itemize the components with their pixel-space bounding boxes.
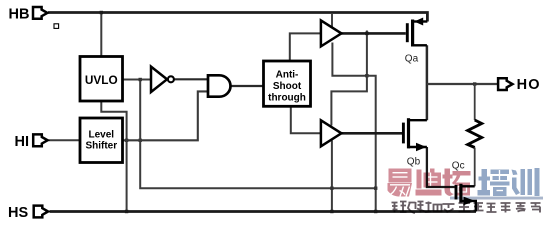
- wire inverter output to AND input: [174, 78, 208, 80]
- watermark logo row1 char tuo: [443, 169, 471, 197]
- node gate wire junction: [365, 32, 368, 35]
- pin HI: [33, 134, 47, 146]
- svg-text:HB: HB: [9, 7, 30, 23]
- Anti-Shoot through box: [264, 61, 311, 106]
- node UVLO-out junction: [139, 78, 142, 81]
- inverter U1: [151, 67, 167, 92]
- transistor Qb: [403, 118, 427, 148]
- wire HB top rail to Qa drain: [48, 13, 427, 22]
- svg-text:Qa: Qa: [405, 53, 419, 64]
- node bottom tap crossing F1: [330, 187, 333, 190]
- wire UVLO bottom jog down left side to HS rail: [101, 101, 126, 212]
- svg-text:UVLO: UVLO: [85, 73, 118, 87]
- pin HO: [498, 78, 512, 90]
- wire HI pin to Level Shifter: [49, 139, 81, 141]
- wire rail tap into top buffer top edge: [331, 14, 333, 28]
- svg-text:Level: Level: [89, 130, 115, 141]
- svg-text:Qb: Qb: [407, 156, 421, 167]
- resistor: [468, 120, 482, 148]
- node V_b crossing LS wire: [139, 139, 142, 142]
- UVLO box: [80, 57, 123, 102]
- buffer bottom: [321, 120, 342, 146]
- svg-text:Shoot: Shoot: [273, 81, 302, 92]
- node S2 junction: [365, 74, 368, 77]
- watermark logo row1 char di: [416, 169, 442, 196]
- wire top buffer bottom tap S3+S2: [332, 43, 367, 76]
- svg-text:Qc: Qc: [452, 161, 465, 172]
- svg-text:Anti-: Anti-: [276, 70, 299, 81]
- wire HS bottom rail: [50, 210, 477, 213]
- watermark logo row1 char xun (blue): [512, 168, 540, 196]
- wire Anti-Shoot bottom jog to bottom buffer input: [291, 106, 321, 133]
- watermark logo row1 char yi: [388, 168, 543, 200]
- wire Qb source down to Qc gate: [427, 147, 455, 187]
- wire HO node vertical Qa source to Qb drain: [426, 45, 429, 120]
- node resistor tap on HO wire: [473, 82, 476, 85]
- wire HO output: [427, 83, 498, 85]
- wire resistor bottom lead to Qc drain: [474, 148, 476, 187]
- watermark row2 gray slogan text: [392, 202, 541, 214]
- watermark logo row1 char pei (blue): [478, 169, 510, 196]
- node HS junctions: [125, 210, 128, 213]
- wire top buffer output to Qa gate: [341, 32, 406, 35]
- node F1 right end junction: [374, 187, 377, 190]
- wire bottom buffer bottom tap down to HS rail: [331, 141, 333, 212]
- watermark underline: [450, 197, 543, 200]
- wire Anti-Shoot top jog to top buffer input: [290, 33, 321, 61]
- svg-text:Shifter: Shifter: [85, 141, 117, 152]
- node rail-UVLO junction: [100, 11, 103, 14]
- node V_a crossing LS wire: [125, 139, 128, 142]
- wire UVLO output to inverter: [123, 79, 151, 81]
- svg-text:HS: HS: [8, 205, 28, 219]
- pin HS: [34, 206, 48, 218]
- wire V1 gate feedback down and left to bottom buffer top: [331, 31, 367, 126]
- svg-text:through: through: [268, 93, 306, 104]
- wire bottom buffer output to Qb gate: [341, 132, 403, 135]
- wire AND output to Anti-Shoot box: [230, 85, 263, 87]
- wire resistor top lead: [474, 84, 476, 120]
- wire UVLO output down to F1 feedback rail: [140, 80, 376, 189]
- wire Level Shifter output to AND bottom input: [123, 91, 209, 140]
- transistor Qa: [407, 20, 427, 47]
- wire jog from S2 junction down to HS rail: [367, 76, 376, 212]
- pin HB: [33, 7, 47, 19]
- svg-text:HO: HO: [517, 77, 541, 93]
- wire rail to UVLO top: [100, 13, 102, 57]
- transistor Qc: [456, 184, 476, 212]
- small square marker: [54, 24, 59, 29]
- svg-text:HI: HI: [15, 134, 30, 150]
- buffer top: [321, 20, 342, 46]
- AND gate: [208, 75, 230, 96]
- Level Shifter box: [80, 118, 123, 163]
